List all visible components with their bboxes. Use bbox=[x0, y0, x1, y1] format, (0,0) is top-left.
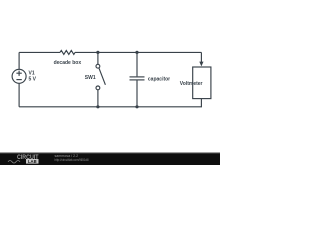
wire switch branch upper bbox=[97, 52, 99, 64]
CircuitLab logo bbox=[8, 155, 39, 164]
svg-text:LAB: LAB bbox=[28, 159, 37, 164]
switch SW1 bbox=[96, 64, 105, 90]
voltmeter M1 box bbox=[193, 67, 211, 99]
svg-text:5 V: 5 V bbox=[29, 77, 37, 83]
wire left above V1 bbox=[18, 52, 20, 69]
wire left below V1 bbox=[18, 83, 20, 107]
wire top from resistor to right corner bbox=[75, 51, 201, 53]
wire bottom return bbox=[19, 99, 201, 107]
footer bar bbox=[0, 154, 220, 166]
node junction top capacitor bbox=[135, 51, 138, 54]
svg-text:capacitor: capacitor bbox=[148, 76, 170, 82]
node junction bottom capacitor bbox=[135, 105, 138, 108]
resistor R1 (decade box) bbox=[60, 50, 75, 54]
wire capacitor branch upper bbox=[136, 52, 138, 76]
svg-text:Voltmeter: Voltmeter bbox=[180, 81, 203, 87]
wire top from V1 to resistor bbox=[19, 51, 60, 53]
capacitor C1 bbox=[130, 77, 145, 80]
wire right drop to voltmeter arrow bbox=[200, 52, 202, 62]
voltage source V1 bbox=[12, 69, 26, 83]
wire switch branch lower bbox=[97, 90, 99, 107]
svg-text:http://circuitlab.com/9651d8: http://circuitlab.com/9651d8 bbox=[55, 158, 89, 162]
svg-text:SW1: SW1 bbox=[85, 75, 96, 81]
node junction top switch bbox=[96, 51, 99, 54]
svg-text:decade box: decade box bbox=[54, 60, 82, 66]
node junction bottom switch bbox=[96, 105, 99, 108]
voltmeter arrow head bbox=[199, 62, 203, 67]
wire capacitor branch lower bbox=[136, 80, 138, 106]
